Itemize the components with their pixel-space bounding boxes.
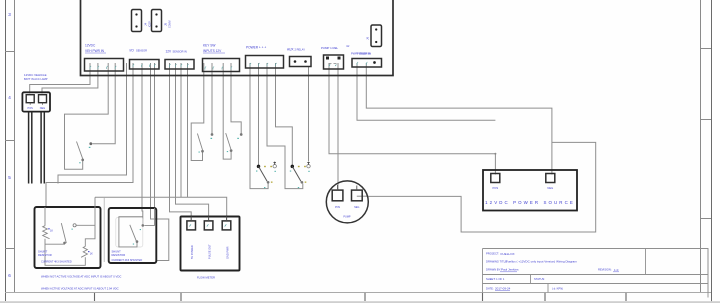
svg-text:FLOW METER: FLOW METER bbox=[197, 275, 215, 279]
svg-text:PWR: PWR bbox=[351, 52, 358, 56]
svg-text:2017-09-24: 2017-09-24 bbox=[495, 287, 511, 291]
svg-text:12VDC VEHICLE: 12VDC VEHICLE bbox=[24, 73, 47, 77]
svg-text:INPUTS 12V: INPUTS 12V bbox=[203, 49, 222, 53]
svg-text:NEG: NEG bbox=[354, 206, 359, 209]
svg-text:PUMP: PUMP bbox=[343, 216, 351, 219]
svg-text:( d: KPN): ( d: KPN) bbox=[552, 286, 563, 290]
svg-text:J6: J6 bbox=[366, 37, 370, 41]
svg-text:STATUS:: STATUS: bbox=[534, 277, 545, 281]
svg-text:NEG: NEG bbox=[40, 107, 45, 110]
svg-text:WHEN NOT ACTIVE VOLTAGE AT ADC: WHEN NOT ACTIVE VOLTAGE AT ADC INPUT IS … bbox=[41, 275, 121, 279]
svg-text:1K: 1K bbox=[90, 252, 93, 255]
svg-text:2 RELAY: 2 RELAY bbox=[295, 48, 306, 52]
svg-text:RESISTOR: RESISTOR bbox=[38, 253, 52, 257]
svg-text:POWER + + +: POWER + + + bbox=[246, 46, 266, 50]
svg-text:KEY SW: KEY SW bbox=[203, 44, 215, 48]
svg-text:POS: POS bbox=[492, 186, 498, 190]
svg-text:BATT IN ACC LAMP: BATT IN ACC LAMP bbox=[24, 77, 48, 81]
svg-text:J4: J4 bbox=[144, 23, 148, 27]
svg-text:REVISION:: REVISION: bbox=[598, 268, 612, 272]
svg-text:SHUNT: SHUNT bbox=[38, 250, 48, 254]
svg-text:I/O: I/O bbox=[130, 49, 135, 53]
svg-text:SHEET: 1 OF 1: SHEET: 1 OF 1 bbox=[486, 277, 505, 281]
svg-text:1.0: 1.0 bbox=[614, 268, 619, 272]
svg-text:1K: 1K bbox=[50, 230, 53, 233]
svg-text:4: 4 bbox=[8, 95, 11, 100]
svg-text:GND PWR: GND PWR bbox=[225, 246, 229, 259]
svg-text:12VDC POWER SOURCE: 12VDC POWER SOURCE bbox=[485, 200, 575, 205]
svg-text:PUMP 1 REL: PUMP 1 REL bbox=[321, 46, 339, 50]
svg-text:VEH PWR IN: VEH PWR IN bbox=[85, 49, 105, 53]
svg-text:ICSP: ICSP bbox=[148, 21, 151, 27]
svg-text:DRAWING TITLE:: DRAWING TITLE: bbox=[486, 259, 508, 263]
svg-text:CURRENT 4K3 SHUNTED: CURRENT 4K3 SHUNTED bbox=[41, 260, 72, 264]
svg-text:PULSE OUT: PULSE OUT bbox=[208, 244, 212, 259]
svg-text:5: 5 bbox=[8, 175, 11, 180]
svg-text:DATE:: DATE: bbox=[486, 286, 494, 290]
svg-text:SENSOR: SENSOR bbox=[136, 49, 147, 53]
svg-text:NEG: NEG bbox=[547, 186, 553, 190]
svg-text:J5: J5 bbox=[164, 23, 168, 27]
svg-text:Paul Jenkins: Paul Jenkins bbox=[501, 268, 519, 272]
svg-text:POS: POS bbox=[335, 206, 340, 209]
svg-text:WHEN ACTIVE VOLTAGE AT ADC INP: WHEN ACTIVE VOLTAGE AT ADC INPUT IS ABOU… bbox=[41, 286, 119, 290]
svg-text:6: 6 bbox=[8, 273, 11, 278]
svg-text:POS: POS bbox=[28, 107, 34, 110]
svg-text:12VDC: 12VDC bbox=[85, 44, 96, 48]
svg-text:SHUNT: SHUNT bbox=[112, 250, 122, 254]
svg-text:SENSOR IN: SENSOR IN bbox=[173, 50, 187, 54]
svg-text:5V POWER: 5V POWER bbox=[190, 245, 194, 259]
svg-text:RELAY IN: RELAY IN bbox=[360, 53, 371, 56]
svg-text:Fuellox ( +12VDC only input: Fuellox ( +12VDC only input Version) Wir… bbox=[506, 259, 577, 263]
svg-text:PROJECT:: PROJECT: bbox=[486, 252, 499, 256]
svg-text:AUX: AUX bbox=[287, 48, 294, 52]
svg-text:DRAWN BY:: DRAWN BY: bbox=[486, 268, 501, 272]
svg-text:12V: 12V bbox=[166, 50, 173, 54]
svg-text:3: 3 bbox=[8, 12, 11, 17]
svg-text:FUELLOX: FUELLOX bbox=[501, 252, 515, 256]
svg-text:RESISTOR: RESISTOR bbox=[112, 253, 126, 257]
svg-text:COMM: COMM bbox=[168, 20, 171, 28]
svg-text:CURRENT 4K3 SHUNTED: CURRENT 4K3 SHUNTED bbox=[112, 258, 143, 262]
